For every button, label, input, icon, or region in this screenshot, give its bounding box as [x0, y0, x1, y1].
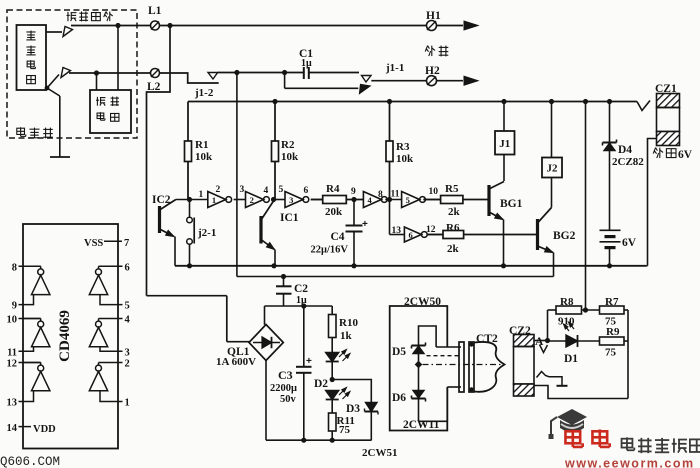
relay contact j2-1: [189, 200, 191, 218]
relay contact j1-1 (changeover): [362, 76, 372, 83]
svg-text:D2: D2: [314, 378, 328, 390]
diode D4 2CZ82: [609, 102, 611, 143]
svg-text:2: 2: [125, 359, 130, 370]
svg-text:4: 4: [367, 195, 372, 205]
svg-text:IC1: IC1: [280, 212, 299, 224]
svg-text:2200μ: 2200μ: [270, 383, 297, 394]
wire: down-left to rectifier input: [147, 26, 171, 296]
svg-text:D6: D6: [392, 392, 406, 404]
svg-text:6V: 6V: [678, 149, 693, 161]
svg-text:6V: 6V: [622, 237, 637, 249]
rail junction: [583, 99, 588, 104]
zener D5: [419, 326, 437, 347]
zener D3 2CW51: [332, 380, 371, 403]
svg-text:6: 6: [304, 186, 309, 196]
svg-text:9: 9: [351, 187, 356, 197]
svg-text:3: 3: [240, 185, 245, 195]
svg-text:R3: R3: [396, 141, 410, 153]
resistor R8 910: [556, 306, 582, 314]
wire CZ2 top to node A: [534, 340, 548, 342]
node C2 tap: [281, 274, 286, 279]
svg-text:R8: R8: [560, 296, 574, 308]
CD4069 inverter pins 12/13 (left): [19, 362, 41, 364]
resistor R9 75: [600, 337, 625, 345]
rail junction: [549, 99, 554, 104]
node: ringer tap on upper line: [115, 23, 120, 28]
svg-text:C3: C3: [278, 368, 293, 382]
svg-text:1k: 1k: [340, 330, 353, 342]
wire rail to R8/R7 node: [585, 102, 587, 311]
LED pair D2 (lower): [326, 391, 339, 400]
svg-text:J1: J1: [499, 138, 510, 150]
svg-text:2k: 2k: [448, 206, 461, 218]
top supply rail: [188, 101, 637, 103]
svg-text:6: 6: [408, 230, 412, 240]
wire to C1: [237, 72, 304, 74]
terminal L2: [151, 69, 160, 78]
node C3 top: [301, 303, 306, 308]
svg-text:10k: 10k: [281, 151, 299, 163]
wire CZ2 bottom to R9 return: [534, 386, 628, 399]
center tap node: [415, 361, 423, 369]
rail junction: [607, 99, 612, 104]
svg-text:2: 2: [250, 195, 254, 205]
svg-text:J2: J2: [547, 163, 559, 175]
inverter gate 3: [285, 192, 303, 208]
svg-text:C4: C4: [331, 231, 345, 243]
svg-text:H2: H2: [425, 65, 440, 77]
terminal H1 with arrow: [427, 21, 437, 31]
svg-text:3: 3: [125, 347, 130, 358]
wire: tap down to ringer box: [96, 73, 98, 90]
svg-text:R5: R5: [445, 183, 459, 195]
dc top line: [265, 305, 333, 307]
resistor R10 1k: [331, 306, 333, 315]
breakpoint V to CZ1: [637, 101, 650, 111]
stub with bar below speech box: [47, 88, 60, 96]
svg-text:5: 5: [279, 185, 284, 195]
svg-text:9: 9: [12, 301, 17, 312]
svg-text:www.eeworm.com: www.eeworm.com: [564, 457, 695, 468]
svg-text:50v: 50v: [280, 394, 297, 405]
svg-text:10k: 10k: [195, 151, 213, 163]
relay coil J1: [503, 102, 505, 132]
svg-text:2k: 2k: [447, 243, 460, 255]
svg-text:2CZ82: 2CZ82: [612, 156, 644, 168]
svg-text:5: 5: [125, 301, 130, 312]
capacitor C3 2200u 50v: [303, 306, 305, 366]
battery 6V: [600, 229, 621, 231]
svg-text:j1-1: j1-1: [385, 62, 404, 74]
ringer circuit box 振铃电路: [90, 90, 131, 133]
svg-text:12: 12: [7, 359, 18, 370]
svg-text:C2: C2: [294, 283, 308, 295]
zener D6: [418, 367, 420, 391]
svg-text:1: 1: [199, 190, 204, 200]
svg-text:1: 1: [125, 398, 130, 409]
transistor BG2: [536, 219, 539, 250]
CD4069 inverter pins 4/3 (right): [99, 318, 123, 320]
right-edge wire R7/R9 down: [627, 310, 629, 399]
dc bottom rail: [266, 439, 372, 441]
svg-text:11: 11: [391, 190, 400, 200]
svg-text:10: 10: [7, 315, 18, 326]
svg-text:12: 12: [426, 225, 436, 235]
watermark 电子下载站: [622, 437, 635, 450]
earphone jack symbol: [537, 372, 563, 386]
svg-text:R4: R4: [326, 183, 340, 195]
svg-text:VDD: VDD: [33, 424, 56, 435]
CD4069 inverter pins 2/1 (right): [99, 362, 123, 364]
wire bridge top vertex: [264, 306, 266, 325]
resistor R1 10k: [187, 102, 189, 142]
svg-text:22μ/16V: 22μ/16V: [311, 245, 349, 256]
bridge rectifier QL1: [147, 295, 227, 297]
label 压簧开关 (hook spring switch): [67, 12, 77, 21]
svg-text:D3: D3: [346, 403, 360, 415]
wires to transformer primary: [419, 420, 448, 422]
watermark logo graduation cap: [549, 409, 588, 439]
svg-text:BG1: BG1: [500, 198, 523, 210]
resistor R5 2k: [423, 199, 440, 201]
svg-text:H1: H1: [426, 10, 441, 22]
resistor R2 10k: [274, 102, 276, 142]
svg-text:A: A: [535, 336, 544, 348]
svg-text:D5: D5: [392, 346, 406, 358]
capacitor C1 1u: [303, 67, 305, 79]
CD4069 inverter pins 8/9 (left): [19, 265, 41, 267]
svg-text:j2-1: j2-1: [197, 227, 216, 239]
svg-text:j1-2: j1-2: [194, 87, 214, 99]
inverter gate 5: [402, 192, 420, 208]
terminal L1: [151, 21, 160, 30]
svg-text:+: +: [306, 356, 312, 367]
svg-text:4: 4: [264, 186, 269, 196]
label 电话机: [17, 127, 26, 136]
rail junction: [387, 99, 392, 104]
hook switch contact (lower): [45, 86, 50, 91]
svg-text:1μ: 1μ: [301, 58, 312, 69]
resistor R7 75: [600, 306, 625, 314]
svg-text:20k: 20k: [325, 206, 343, 218]
capacitor C2 1u: [283, 277, 285, 286]
relay coil J2: [551, 102, 553, 158]
wire: L1 to H1: [160, 25, 427, 27]
CD4069 inverter pins 10/11 (left): [19, 318, 41, 320]
svg-text:8: 8: [378, 190, 383, 200]
telephone set dashed enclosure 电话机: [7, 10, 137, 138]
svg-text:L1: L1: [148, 5, 162, 17]
svg-text:VSS: VSS: [84, 238, 103, 249]
svg-text:R9: R9: [606, 326, 620, 338]
node under C1 branch: [234, 70, 239, 75]
svg-text:L2: L2: [147, 81, 161, 93]
transistor BG1: [487, 185, 490, 216]
svg-text:7: 7: [124, 238, 129, 249]
node IC2/R1/inverter1 input: [187, 197, 192, 202]
node R8/R7: [583, 307, 588, 312]
wire bridge bottom vertex: [265, 361, 267, 441]
svg-text:5: 5: [406, 195, 410, 205]
relay contact j1-2: [160, 73, 219, 83]
svg-text:4: 4: [125, 315, 131, 326]
ground rail (negative): [175, 265, 646, 267]
svg-text:10: 10: [429, 187, 439, 197]
svg-text:BG2: BG2: [553, 230, 576, 242]
svg-text:+: +: [362, 219, 368, 230]
svg-text:Q606.COM: Q606.COM: [0, 455, 60, 468]
wire R3 node down to inverter 6: [389, 200, 391, 235]
svg-text:1: 1: [212, 195, 216, 205]
LED D1: [548, 340, 567, 342]
svg-text:75: 75: [339, 424, 351, 436]
CD4069 inverter pins 6/5 (right): [99, 265, 123, 267]
rail junction: [272, 99, 277, 104]
wire: upper tap down to ringer box: [117, 26, 119, 91]
svg-text:75: 75: [605, 347, 617, 359]
svg-text:D4: D4: [618, 144, 632, 156]
svg-text:13: 13: [7, 398, 18, 409]
hook switch contact (upper): [46, 31, 62, 33]
svg-text:14: 14: [7, 423, 18, 434]
node: ringer tap on lower line: [94, 70, 99, 75]
pin 14 VDD: [19, 426, 32, 428]
capacitor C4 22u/16V: [353, 200, 355, 226]
rail junction: [501, 99, 506, 104]
resistor R6 2k: [427, 234, 443, 236]
inverter gate 6: [404, 227, 421, 242]
svg-text:R7: R7: [605, 296, 619, 308]
LED pair D2 (upper): [326, 353, 339, 362]
svg-text:2: 2: [216, 185, 221, 195]
resistor R11 75: [329, 413, 337, 431]
node after L1: [167, 23, 172, 28]
IC CD4069 pinout box: [23, 224, 118, 449]
svg-text:6: 6: [125, 262, 130, 273]
svg-text:11: 11: [7, 347, 17, 358]
resistor R4 20k: [311, 199, 323, 201]
svg-text:3: 3: [289, 195, 293, 205]
svg-text:R2: R2: [281, 139, 295, 151]
node R2/IC1: [271, 199, 285, 201]
resistor R3 10k: [389, 102, 391, 142]
svg-text:10k: 10k: [396, 153, 414, 165]
inverter gate 1: [208, 192, 226, 208]
svg-text:R1: R1: [195, 139, 208, 151]
svg-text:2CW51: 2CW51: [362, 447, 397, 459]
wire CZ1 to ground rail: [648, 139, 657, 266]
svg-text:D1: D1: [564, 353, 578, 365]
svg-text:CT2: CT2: [476, 333, 498, 345]
inverter gate 4: [363, 192, 381, 208]
node D2 mid: [330, 377, 335, 382]
speech circuit box 通话电路: [17, 25, 47, 90]
svg-text:R10: R10: [339, 317, 358, 329]
svg-text:1A 600V: 1A 600V: [216, 356, 256, 368]
label 外接6V: [653, 148, 663, 158]
svg-text:R6: R6: [446, 222, 460, 234]
svg-text:CD4069: CD4069: [57, 310, 73, 362]
inverter gate 2: [246, 192, 264, 208]
wire: lower contact to L2: [69, 72, 151, 74]
label 外线 (outside line): [425, 46, 435, 56]
terminal H2 with arrow: [371, 80, 426, 82]
svg-text:8: 8: [12, 262, 17, 273]
wire: hook switch to L1: [71, 25, 151, 27]
watermark 虫虫: [565, 429, 582, 446]
lower line from C1 node to BG2 emitter: [236, 73, 238, 277]
